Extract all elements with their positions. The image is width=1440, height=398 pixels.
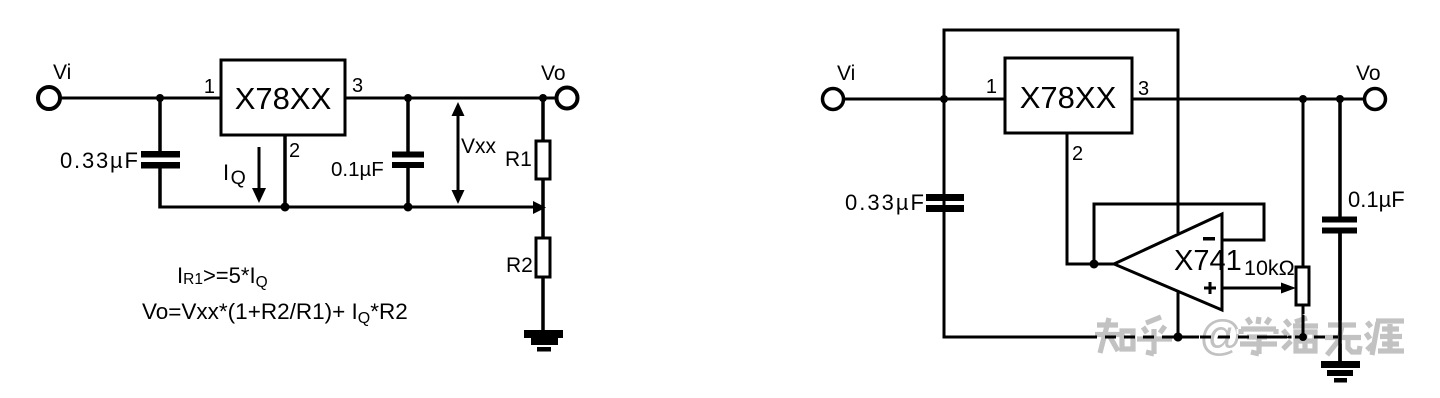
capacitor C 0.1uF (left circuit) bottom plate: [392, 162, 424, 168]
current arrow IQ head: [252, 188, 266, 203]
watermark char zhi halo: [1095, 318, 1133, 353]
wire feedback right vertical: [1263, 203, 1266, 242]
junction output cap branch: [1336, 95, 1344, 103]
wire redraw op-amp bottom drop over watermark: [1177, 292, 1180, 339]
svg-text:10kΩ: 10kΩ: [1244, 256, 1295, 280]
wire redraw cap to ground over watermark: [1338, 233, 1342, 363]
wire down to C2 top: [406, 98, 410, 152]
junction node input cap tap: [156, 94, 164, 102]
junction pot bottom on rail: [1299, 333, 1307, 341]
voltage arrow Vxx top head: [452, 102, 465, 116]
svg-text:X78XX: X78XX: [1020, 80, 1117, 115]
watermark char xue: [1240, 317, 1277, 354]
op-amp minus sign: [1203, 237, 1215, 241]
wire pin 3 to Vo: [1132, 98, 1366, 101]
wire pin 2 over to op-amp output: [1066, 263, 1117, 266]
regulator U2 X78XX box (right circuit): [1005, 58, 1132, 133]
watermark char zhi: [1095, 318, 1133, 353]
wire top rail: [943, 29, 1180, 32]
svg-text:Vxx: Vxx: [461, 135, 497, 158]
junction Vo to pot branch: [1299, 95, 1307, 103]
ground symbol redraw (right circuit): [1321, 361, 1360, 383]
watermark char hai halo: [1283, 318, 1318, 351]
capacitor C 0.33uF (right circuit) bottom plate: [926, 205, 964, 212]
capacitor C 0.33uF (left circuit) top plate: [141, 151, 180, 158]
svg-text:0.1µF: 0.1µF: [331, 158, 384, 181]
watermark zhihu @xuehaiwuya: [1095, 312, 1404, 360]
watermark char xue halo: [1240, 317, 1277, 354]
svg-text:Vi: Vi: [837, 62, 855, 85]
wire feedback left vertical: [1093, 203, 1096, 265]
watermark char ya halo: [1366, 321, 1404, 355]
terminal Vi (right circuit): [823, 89, 844, 110]
wire Vi to pin 1: [844, 98, 1005, 101]
svg-text:0.1µF: 0.1µF: [1348, 187, 1405, 212]
wire top rail drop to op-amp V+: [1177, 30, 1180, 233]
svg-text:0.33µF: 0.33µF: [60, 148, 140, 173]
voltage arrow Vxx double headed: [457, 110, 460, 196]
wire input node vertical (top rail to bottom rail): [943, 29, 946, 339]
watermark char hu: [1137, 317, 1172, 354]
junction op-amp output node: [1090, 260, 1099, 269]
wire feedback into inverting input: [1222, 239, 1264, 242]
wire Vi to pin 1: [61, 97, 221, 100]
wire op-amp bottom to rail: [1177, 292, 1180, 337]
svg-text:R2: R2: [506, 254, 533, 277]
watermark char wu halo: [1325, 325, 1361, 355]
wire pin 2 down: [1066, 133, 1069, 266]
svg-text:Vo: Vo: [1356, 62, 1381, 85]
wire redraw pot bottom segment: [1302, 315, 1305, 337]
wire C2 bottom to ground rail: [406, 168, 410, 207]
capacitor C 0.1uF (right circuit) top plate: [1322, 217, 1357, 223]
wire bottom ground rail (right circuit): [944, 336, 1340, 339]
capacitor C 0.1uF (left circuit) top plate: [392, 152, 424, 158]
wire R2 bottom to ground: [541, 277, 545, 333]
resistor R1 body: [536, 141, 550, 179]
wire feedback top: [1093, 203, 1266, 206]
watermark char wu: [1325, 325, 1361, 355]
voltage arrow Vxx bottom head: [452, 190, 465, 204]
junction input node: [940, 95, 948, 103]
capacitor C 0.1uF (right circuit) bottom plate: [1322, 228, 1357, 234]
junction C2 on ground rail: [404, 203, 413, 212]
svg-text:Vi: Vi: [53, 61, 71, 84]
wire down to C 0.1uF: [1338, 99, 1342, 217]
junction op-amp V- on bottom rail: [1174, 333, 1183, 342]
wire C bottom down to ground: [1338, 233, 1342, 363]
capacitor C 0.33uF (right circuit) top plate: [926, 194, 964, 201]
terminal Vo (left circuit): [557, 88, 578, 109]
terminal Vi (left circuit): [38, 87, 60, 109]
resistor R2 body: [536, 238, 550, 277]
capacitor C 0.33uF (left circuit) bottom plate: [141, 162, 180, 169]
junction Vo node: [539, 94, 547, 102]
terminal Vo (right circuit): [1365, 89, 1386, 110]
wire Vo node down to R1: [541, 98, 545, 141]
potentiometer R 10k body: [1296, 267, 1309, 305]
svg-text:X78XX: X78XX: [235, 81, 332, 116]
watermark char hai: [1283, 318, 1318, 351]
current arrow IQ: [258, 147, 261, 191]
wire R1 bottom to rail: [541, 179, 545, 238]
op-amp U3 triangle: [1114, 214, 1222, 310]
wire non-inverting input to pot wiper: [1222, 287, 1283, 290]
wire pot bottom to ground rail: [1302, 305, 1305, 337]
junction redraw op-amp V- on bottom rail: [1174, 333, 1183, 342]
wire C1 bottom to ground rail: [158, 168, 162, 209]
junction redraw pot bottom on rail: [1299, 333, 1307, 341]
ground symbol (left circuit): [524, 330, 563, 352]
wire pin 3 to Vo: [345, 97, 557, 100]
svg-text:0.33µF: 0.33µF: [845, 190, 926, 215]
junction pin2 on ground rail: [281, 203, 290, 212]
watermark char hu halo: [1137, 317, 1172, 354]
wire junction down to C1 top: [158, 98, 162, 152]
svg-text:1: 1: [986, 76, 997, 98]
regulator U1 X78XX box (left circuit): [221, 60, 345, 135]
svg-text:R1: R1: [505, 148, 532, 171]
svg-text:1: 1: [204, 76, 215, 98]
svg-text:3: 3: [352, 75, 363, 97]
svg-text:Vo: Vo: [541, 62, 566, 85]
pot wiper arrow head: [1281, 283, 1296, 294]
op-amp plus sign: [1204, 282, 1216, 294]
junction arrow into R divider node: [533, 201, 546, 214]
svg-text:X741: X741: [1174, 245, 1242, 277]
junction output cap tap: [404, 94, 412, 102]
wire down to potentiometer: [1302, 99, 1305, 267]
watermark char ya: [1366, 321, 1404, 355]
svg-text:3: 3: [1138, 78, 1149, 100]
wire pin 2 down to ground rail: [283, 135, 287, 207]
wire redraw rail dashes under watermark: [1086, 336, 1338, 339]
wire ground rail (left circuit): [159, 206, 535, 209]
ground symbol (right circuit): [1321, 361, 1360, 383]
svg-text:2: 2: [289, 140, 300, 162]
svg-text:2: 2: [1072, 143, 1083, 165]
